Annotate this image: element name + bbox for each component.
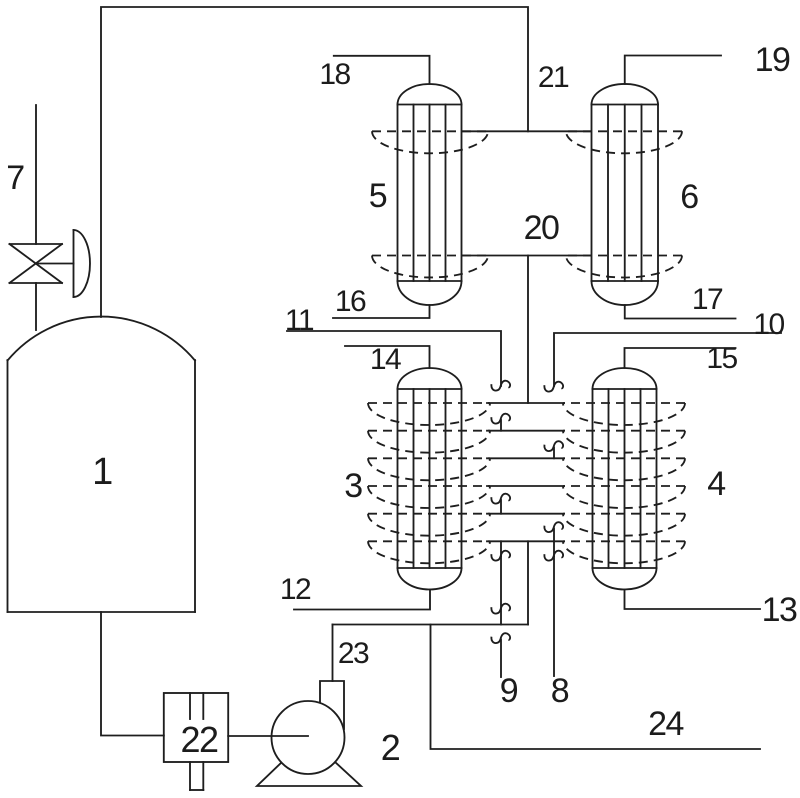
vessel 1 — [8, 317, 196, 612]
coil level 1 — [368, 403, 685, 425]
wire line 11 — [287, 331, 501, 386]
break symbol level 2-3 — [544, 441, 563, 458]
wire filter to pump suction — [228, 735, 308, 737]
wire top pair lower connection — [463, 255, 590, 257]
wire drop to line 24 — [431, 625, 761, 750]
wire line 16 — [333, 305, 430, 318]
wire valve to vessel — [35, 283, 37, 330]
pump 2 casing — [272, 701, 345, 774]
svg-text:24: 24 — [648, 705, 683, 743]
coil level 4 — [368, 486, 685, 508]
svg-text:13: 13 — [762, 591, 797, 629]
coil level 5 — [368, 514, 685, 536]
svg-text:9: 9 — [500, 672, 518, 710]
wire line 9 with breaks — [491, 541, 510, 677]
coil turn column 5 upper — [372, 131, 488, 153]
column 6 shell — [592, 84, 659, 305]
svg-text:5: 5 — [369, 177, 387, 215]
svg-text:14: 14 — [370, 343, 401, 376]
coil turn column 5 lower — [372, 256, 488, 278]
break symbol level 1-2 — [491, 414, 510, 431]
wire line 15 — [625, 348, 736, 368]
svg-text:19: 19 — [755, 41, 790, 79]
wire line 14 — [345, 346, 430, 368]
coil turn column 6 upper — [566, 131, 682, 153]
coil level 3 — [368, 458, 685, 480]
valve on line 7 — [10, 244, 63, 283]
column 3 tubes — [414, 389, 446, 568]
svg-text:21: 21 — [538, 61, 569, 94]
break symbol on line 11 — [491, 381, 510, 391]
column 5 tubes — [414, 105, 446, 282]
wire line 13 — [625, 590, 761, 610]
wire line 18 — [334, 56, 430, 84]
svg-text:22: 22 — [180, 719, 218, 760]
svg-text:3: 3 — [344, 467, 362, 505]
break symbol level 5-6 — [544, 522, 563, 541]
wire top frame — [101, 7, 528, 317]
filter 22 — [164, 693, 228, 790]
wire riser 23 — [332, 625, 334, 682]
column 3 shell — [398, 368, 462, 590]
column 6 tubes — [608, 105, 642, 282]
svg-text:23: 23 — [338, 637, 369, 670]
svg-text:10: 10 — [753, 308, 784, 341]
coil level 2 — [368, 431, 685, 453]
wire vessel outlet to filter 22 — [101, 612, 164, 736]
svg-text:7: 7 — [6, 159, 24, 197]
wire pump discharge header — [333, 624, 529, 626]
wire top pair upper connection — [463, 130, 590, 132]
svg-text:6: 6 — [680, 178, 698, 216]
wire line 19 — [625, 56, 721, 85]
svg-text:8: 8 — [551, 672, 569, 710]
column 4 shell — [593, 368, 657, 590]
break symbol level 4-5 — [491, 494, 510, 514]
svg-text:2: 2 — [381, 727, 400, 768]
svg-text:17: 17 — [692, 283, 723, 316]
svg-text:16: 16 — [335, 285, 366, 318]
valve actuator diaphragm — [36, 230, 90, 297]
svg-text:15: 15 — [706, 342, 737, 375]
svg-text:18: 18 — [319, 58, 350, 91]
svg-text:12: 12 — [280, 573, 311, 606]
svg-text:4: 4 — [707, 465, 725, 503]
wire line 7 inlet — [35, 105, 37, 244]
column 4 tubes — [609, 389, 641, 568]
wire line 12 — [294, 590, 430, 610]
coil level 6 — [368, 541, 685, 563]
pump 2 discharge nozzle — [320, 681, 344, 729]
coil turn column 6 lower — [566, 256, 682, 278]
wire line 20 down — [527, 256, 529, 404]
pump 2 base — [257, 737, 361, 786]
wire line 17 — [625, 305, 736, 319]
wire center main line upper — [527, 541, 529, 624]
svg-text:11: 11 — [285, 304, 314, 337]
wire line 10 — [554, 333, 781, 386]
column 5 shell — [398, 84, 462, 305]
svg-text:1: 1 — [92, 451, 112, 493]
break symbol on line 10 — [544, 382, 563, 392]
svg-text:20: 20 — [524, 209, 559, 247]
wire line 8 with break — [544, 541, 563, 676]
